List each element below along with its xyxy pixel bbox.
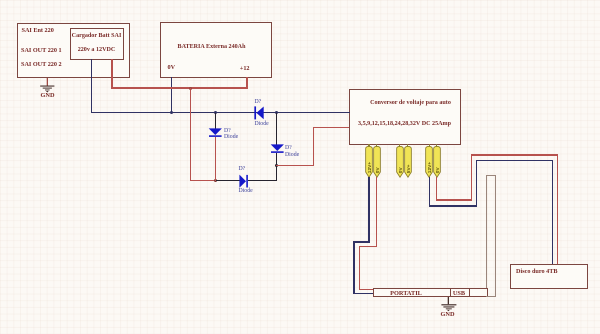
label GND bottom — [433, 311, 462, 318]
diode D2 — [208, 128, 223, 138]
connector lug pair1 left 12V+ — [365, 146, 373, 178]
label 3,5,9,12,15,18,24,28,32V DC 25Amp — [349, 121, 461, 127]
connector lug pair2 right 5V+ — [404, 146, 412, 178]
wire blue bus horizontal 0V — [91, 112, 350, 114]
label SAI OUT 220 1 — [21, 47, 62, 54]
wire pair3 navy down — [429, 177, 431, 207]
pin label 0V — [168, 64, 176, 71]
label 220v a 12VDC — [70, 47, 123, 53]
connector pin stub pair2 left — [399, 144, 400, 147]
label USB — [450, 290, 469, 297]
wire pair3 navy down to disk — [552, 160, 554, 264]
label Disco duro 4TB — [516, 268, 558, 275]
label D3 D? — [285, 145, 292, 151]
label D4 D? — [239, 166, 246, 172]
connector pin stub pair1 right — [376, 144, 377, 147]
wire red drop to bottom rail — [190, 88, 191, 181]
wire pair1 navy down 2 — [353, 241, 355, 294]
wire battery 0V pin down — [171, 77, 173, 113]
label D1 Diode — [255, 121, 269, 127]
box charger Cargador Batt SAI — [70, 28, 124, 61]
wire pair1 navy jog left — [353, 241, 369, 243]
box PORTATIL laptop — [373, 288, 488, 297]
svg-text:0V: 0V — [375, 167, 381, 174]
wire converter feed horizontal — [313, 127, 349, 128]
label GND left — [33, 92, 62, 99]
label PORTATIL — [373, 290, 439, 297]
wire node column below D3 — [276, 153, 277, 182]
node junction red bus — [189, 87, 192, 90]
wire battery +12 pin down — [246, 77, 247, 89]
wire node to converter horizontal — [276, 165, 314, 166]
connector lug pair3 right 0V — [433, 146, 441, 178]
svg-text:5V+: 5V+ — [406, 164, 412, 173]
wire pair3 red bottom across — [436, 199, 472, 200]
connector lug pair1 right 0V — [373, 146, 381, 178]
wire D2 top lead — [215, 113, 216, 129]
wire red bus horizontal +12 — [111, 87, 247, 88]
wire converter feed vertical — [313, 127, 314, 167]
wire pair1 red down — [376, 177, 377, 247]
wire pair3 red down — [436, 177, 437, 201]
wire USB loop right leg — [495, 175, 496, 297]
wire USB loop top — [486, 175, 496, 176]
wire D4 left lead — [216, 180, 240, 181]
label D2 Diode — [224, 134, 238, 140]
label D4 Diode — [239, 188, 253, 194]
label D1 D? — [255, 99, 262, 105]
wire D2 bottom lead red — [215, 137, 216, 181]
ground GND left — [39, 78, 59, 94]
wire pair3 red up — [471, 154, 472, 200]
box Disco duro 4TB — [510, 264, 588, 289]
wire D3 top lead — [276, 113, 277, 145]
label D3 Diode — [285, 152, 299, 158]
wire pair3 red top across — [471, 154, 559, 155]
wire D4 right lead — [248, 180, 277, 181]
wire pair1 red down 2 — [359, 246, 360, 291]
connector pin stub pair3 right — [436, 144, 437, 147]
wire red bottom rail left — [190, 180, 216, 181]
wire pair1 navy down — [368, 177, 370, 243]
label D2 D? — [224, 128, 231, 134]
label SAI Ent 220 — [22, 27, 54, 34]
wire pair1 red jog left — [359, 246, 377, 247]
node junction 0V battery — [170, 111, 173, 114]
box SAI (UPS) — [17, 23, 130, 78]
ground GND bottom — [440, 297, 460, 313]
connector lug pair2 left 0V — [396, 146, 404, 178]
label BATERIA Externa 240Ah — [160, 44, 264, 50]
wire pair3 red down to disk — [557, 154, 558, 264]
wire Cargador red pin down — [111, 59, 112, 89]
node junction diode D2 branch — [214, 111, 217, 114]
wire pair3 navy up — [476, 160, 478, 207]
wire pair1 navy into laptop — [353, 293, 373, 295]
pin divider USB left — [450, 288, 451, 297]
wire pair3 navy top across — [476, 160, 553, 162]
diode D1 — [254, 106, 265, 120]
box battery BATERIA Externa 240Ah — [160, 22, 272, 78]
label Cargador Batt SAI — [70, 33, 123, 39]
wire Cargador blue pin down — [91, 59, 93, 113]
pin divider USB right — [469, 288, 470, 297]
pin label +12 — [240, 65, 250, 72]
svg-text:0V: 0V — [435, 167, 441, 174]
wire USB loop bottom — [486, 296, 496, 297]
connector pin stub pair1 left — [368, 144, 369, 147]
diode D4 — [239, 174, 249, 189]
wire pair3 navy bottom across — [429, 205, 477, 207]
label SAI OUT 220 2 — [21, 61, 62, 68]
node junction bottom rail — [214, 179, 217, 182]
wire USB loop left leg — [486, 175, 487, 288]
node junction diode D3 branch — [275, 111, 278, 114]
wire pair1 red into laptop — [359, 289, 374, 290]
connector pin stub pair3 left — [429, 144, 430, 147]
connector lug pair3 left 12V+ — [425, 146, 433, 178]
connector pin stub pair2 right — [407, 144, 408, 147]
box converter Conversor de voltaje para auto — [349, 89, 461, 145]
label Conversor de voltaje para auto — [355, 100, 467, 106]
node junction D3 cathode — [275, 164, 278, 167]
diode D3 — [270, 144, 285, 154]
